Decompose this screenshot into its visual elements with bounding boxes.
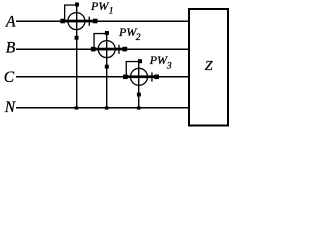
wire line B [16,49,189,51]
svg-text:2: 2 [136,33,141,43]
wattmeter PW2 right terminal square [123,47,128,52]
wattmeter PW3 right terminal tick [151,72,152,81]
wattmeter PW2 right terminal tick [118,45,119,54]
wattmeter PW2 current-coil thick bar [91,48,127,51]
wattmeter PW2 voltage tap loop horizontal wire [93,33,106,34]
svg-text:Z: Z [205,59,213,74]
wattmeter PW3 voltage tap loop horizontal wire [126,61,139,62]
wire line N [16,107,189,109]
wattmeter PW3 top terminal square [138,59,142,63]
svg-text:C: C [4,69,15,86]
wattmeter PW3 current-coil thick bar [123,75,159,78]
wattmeter PW1 voltage tap loop horizontal wire [64,4,77,5]
wattmeter PW3 left terminal square [123,75,128,80]
svg-text:PW: PW [149,53,168,67]
wattmeter PW1 circle [68,13,85,30]
wattmeter PW2 top terminal square [105,31,109,35]
svg-text:PW: PW [118,25,137,39]
wattmeter PW2 [91,31,127,110]
svg-text:3: 3 [166,62,172,72]
wattmeter PW2 voltage-coil vertical wire [106,32,107,108]
wattmeter PW3 junction on N [137,106,141,109]
svg-text:1: 1 [109,7,114,17]
wattmeter PW1 bottom terminal square [75,36,79,40]
wattmeter PW3 voltage tap loop vertical wire [126,61,127,76]
wattmeter PW3 right terminal square [154,75,159,80]
svg-text:A: A [5,14,16,31]
wattmeter PW1 right terminal square [93,19,98,24]
wattmeter PW1 voltage tap loop vertical wire [64,5,65,21]
wattmeter PW1 top terminal square [75,3,79,7]
svg-text:PW: PW [90,0,109,13]
wattmeter PW1 current-coil thick bar [61,20,97,23]
wattmeter PW3 circle [131,68,148,85]
wattmeter PW3 voltage-coil vertical wire [138,59,139,107]
wattmeter PW1 right terminal tick [89,17,90,26]
wattmeter PW2 left terminal square [91,47,96,52]
wattmeter PW2 junction on N [105,106,109,109]
wattmeter PW3 [123,59,159,109]
wattmeter PW1 voltage-coil vertical wire [76,3,77,108]
wattmeter PW2 voltage tap loop vertical wire [93,33,94,49]
svg-text:B: B [6,39,16,56]
load box Z [189,9,228,126]
svg-text:N: N [4,99,17,116]
wire line C [16,76,189,78]
wattmeter PW2 bottom terminal square [105,65,109,69]
wire line A [16,21,189,23]
wattmeter PW3 bottom terminal square [137,93,141,97]
wattmeter PW2 circle [98,41,115,58]
wattmeter PW1 junction on N [75,106,79,109]
wattmeter PW1 [60,3,97,110]
wattmeter PW1 left terminal square [60,19,65,24]
